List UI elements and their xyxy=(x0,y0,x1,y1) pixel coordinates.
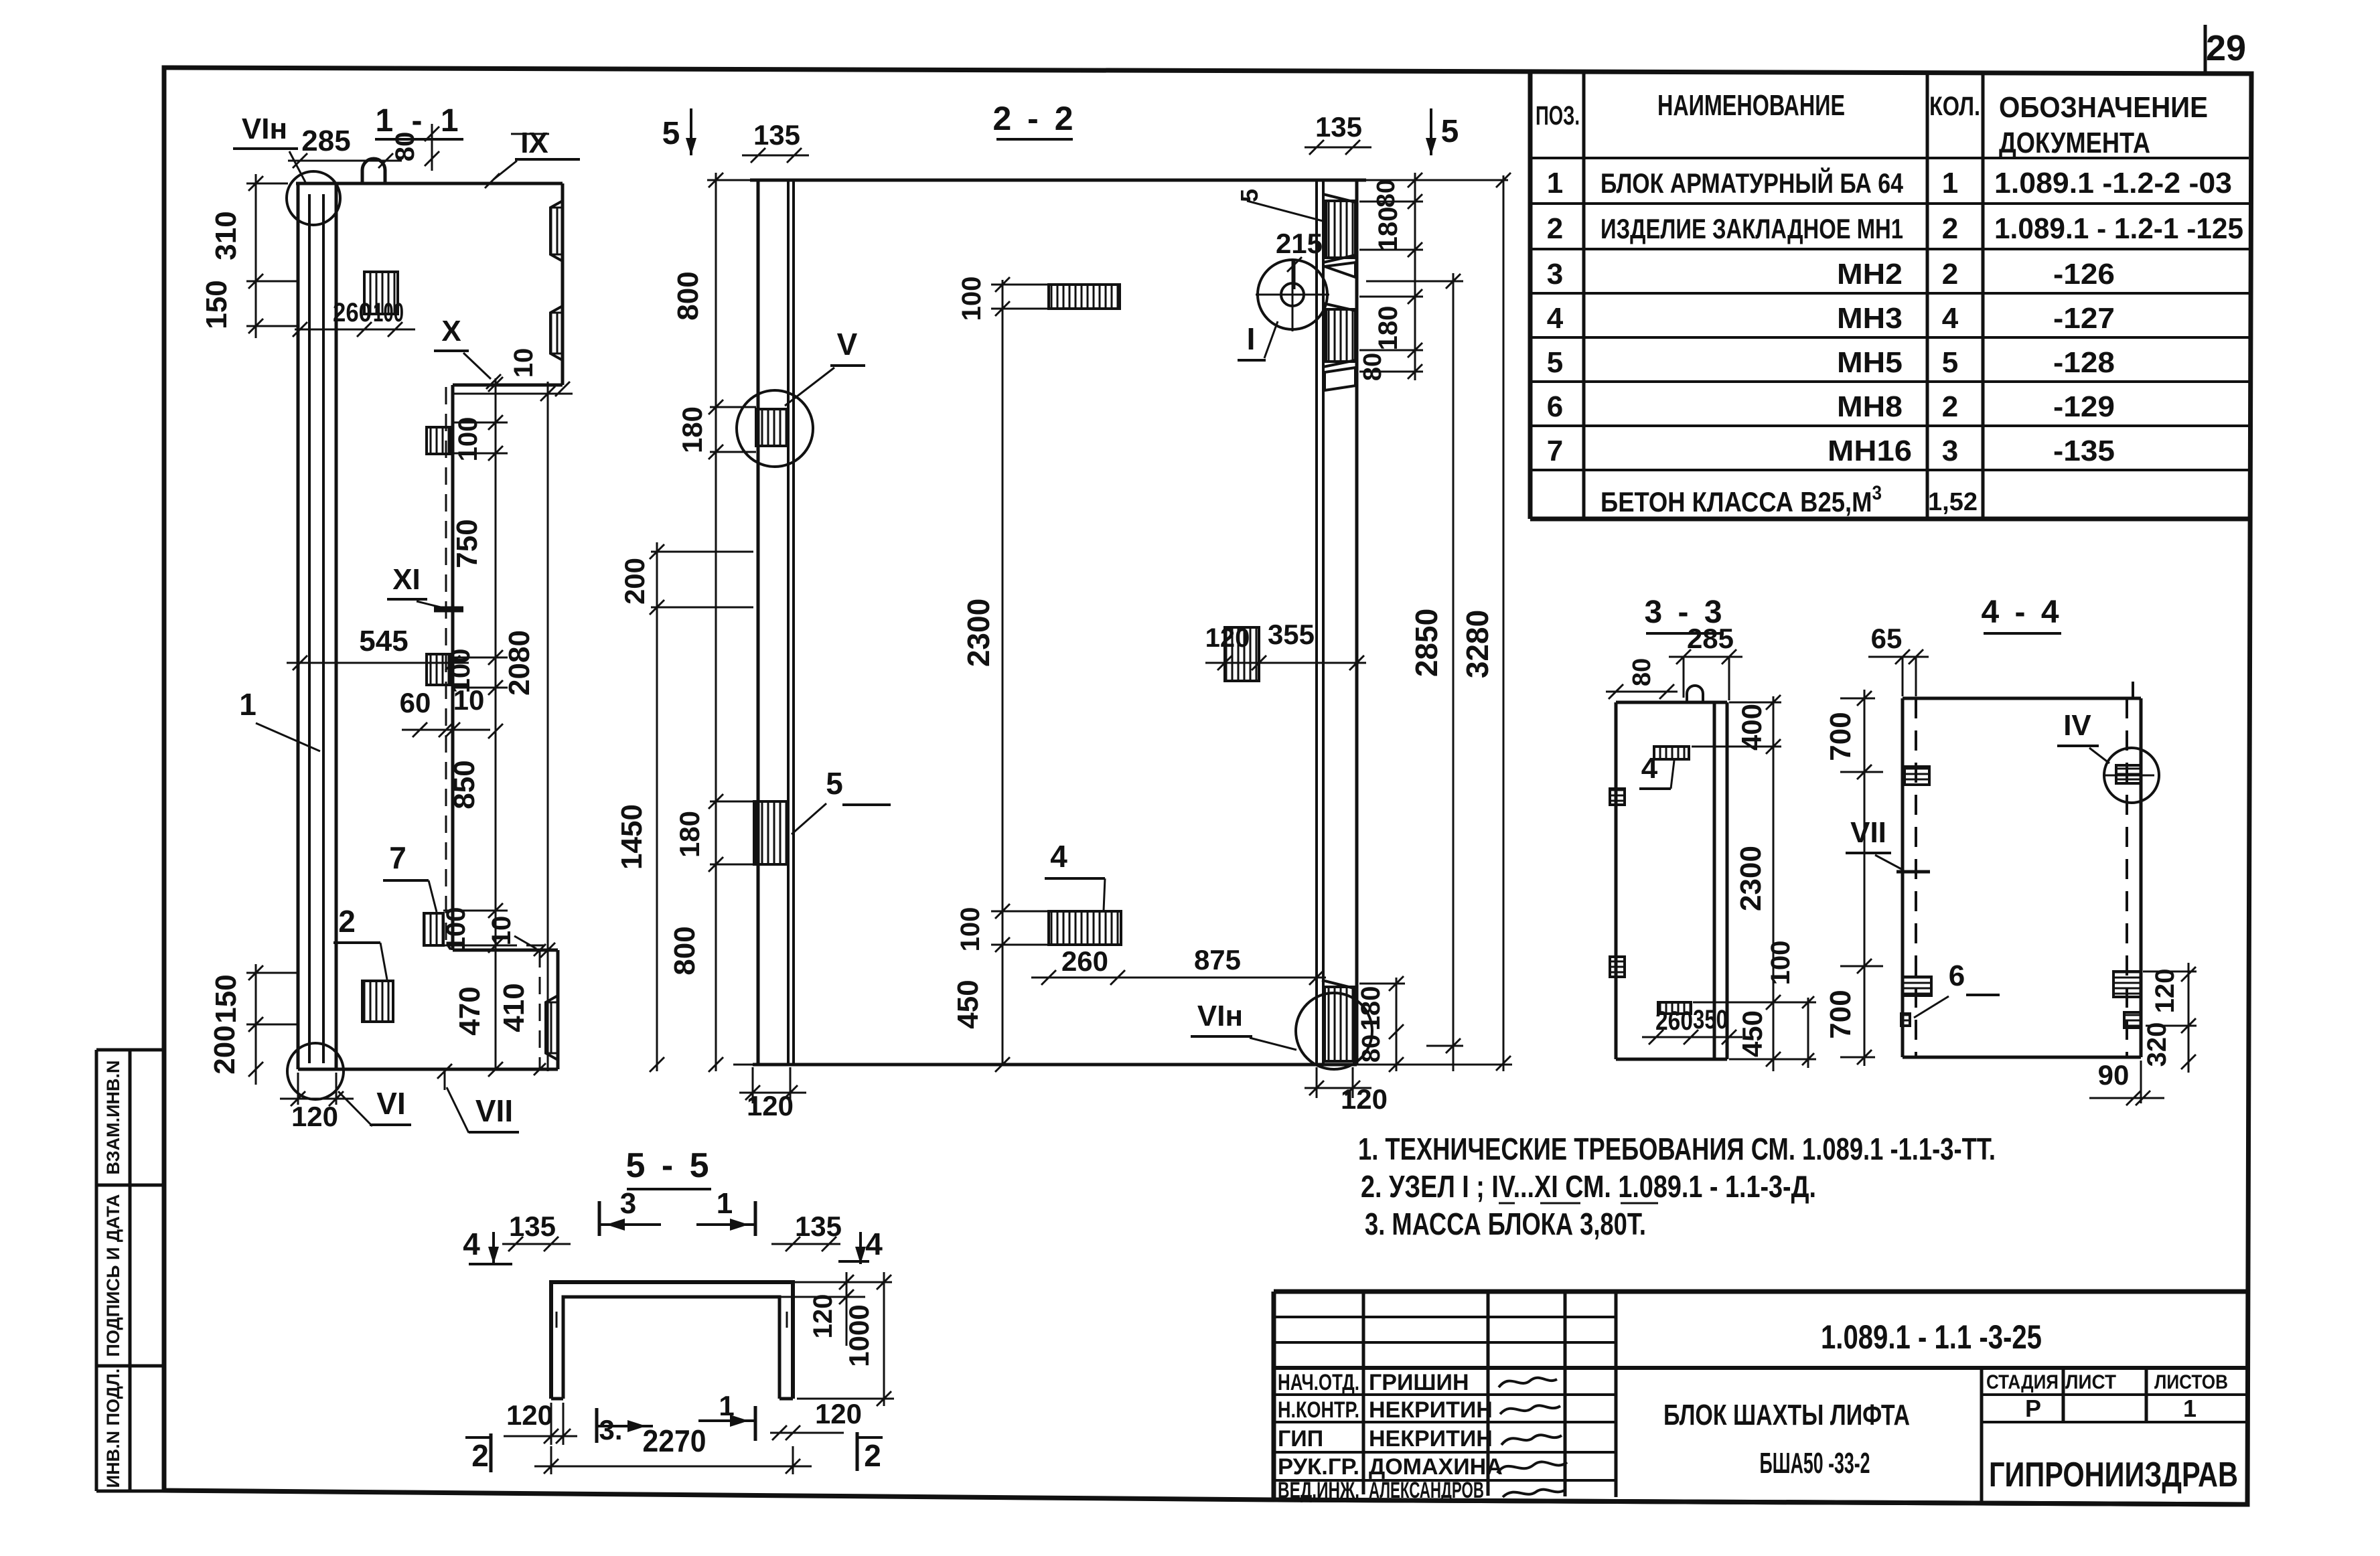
svg-text:6: 6 xyxy=(1949,959,1965,992)
svg-text:2850: 2850 xyxy=(1409,609,1444,677)
svg-text:120: 120 xyxy=(506,1399,553,1431)
view 2-2 plate V xyxy=(756,409,788,446)
view 2-2 plate 4 xyxy=(1049,911,1121,945)
view 1-1 bottom band right edge xyxy=(556,950,560,1069)
view 2-2 right wall outer xyxy=(1355,180,1359,1065)
svg-text:2: 2 xyxy=(338,904,356,939)
view 2-2 right top chain xyxy=(1414,173,1416,380)
view 1-1 inner wall vertical xyxy=(451,385,455,950)
page number 29 tick xyxy=(2204,25,2207,75)
svg-text:1,52: 1,52 xyxy=(1928,488,1978,516)
svg-text:800: 800 xyxy=(672,271,704,320)
svg-text:РУК.ГР.: РУК.ГР. xyxy=(1278,1454,1359,1480)
spec table row lines xyxy=(1530,158,2249,470)
view 1-1 plate 7 xyxy=(424,913,443,945)
svg-text:180: 180 xyxy=(1373,306,1403,351)
view 5-5 right witness lines xyxy=(779,1282,892,1297)
svg-text:5: 5 xyxy=(662,116,680,151)
view 5-5 channel inner xyxy=(563,1297,779,1399)
view 2-2 right wall inner pair xyxy=(1315,180,1318,1065)
svg-text:3280: 3280 xyxy=(1460,610,1495,678)
view 1-1 detail circle top xyxy=(287,171,340,225)
view 4-4 top stub xyxy=(2132,682,2134,698)
view 4-4 lower right tab xyxy=(2124,1012,2141,1028)
view 1-1 right edge of top band xyxy=(561,183,565,385)
view 1-1 wall rebar lines xyxy=(308,194,311,1063)
svg-text:3: 3 xyxy=(1942,435,1958,467)
view 4-4 outline xyxy=(1903,698,2141,1057)
view 1-1 wall inner edge xyxy=(335,183,338,1069)
svg-text:-128: -128 xyxy=(2053,346,2115,379)
svg-text:ПОДПИСЬ И ДАТА: ПОДПИСЬ И ДАТА xyxy=(103,1194,123,1356)
svg-text:ДОМАХИНА: ДОМАХИНА xyxy=(1369,1454,1503,1480)
view 2-2 left wall outer xyxy=(757,180,760,1065)
svg-text:135: 135 xyxy=(753,119,800,151)
detail circle IV xyxy=(2104,748,2159,803)
svg-text:4: 4 xyxy=(1050,839,1067,874)
svg-text:2080: 2080 xyxy=(503,630,536,696)
svg-text:БЕТОН КЛАССА В25,М3: БЕТОН КЛАССА В25,М3 xyxy=(1601,482,1882,518)
svg-text:180: 180 xyxy=(1373,207,1403,252)
title block verticals xyxy=(1363,1292,1616,1497)
view 1-1 key notch lower xyxy=(550,306,563,360)
spec table verticals xyxy=(1584,71,1983,519)
view 2-2 chain 3280 xyxy=(1503,175,1505,1071)
svg-text:VI: VI xyxy=(376,1086,405,1121)
svg-text:2 - 2: 2 - 2 xyxy=(992,100,1076,137)
view 1-1 key notch upper xyxy=(550,201,563,261)
view 1-1 key notch bottom band xyxy=(546,996,558,1060)
svg-text:5: 5 xyxy=(1441,114,1459,149)
svg-text:120: 120 xyxy=(815,1398,862,1429)
svg-text:ГРИШИН: ГРИШИН xyxy=(1369,1370,1469,1395)
view 5-5 channel outer xyxy=(551,1282,793,1399)
svg-text:410: 410 xyxy=(498,983,530,1032)
svg-text:180: 180 xyxy=(676,406,708,453)
svg-text:2: 2 xyxy=(471,1438,489,1473)
svg-text:5 - 5: 5 - 5 xyxy=(625,1146,712,1185)
view 3-3 left tab lower xyxy=(1610,957,1625,977)
svg-text:100: 100 xyxy=(957,277,986,321)
view 2-2 right wall plate R1 xyxy=(1326,201,1355,258)
svg-text:2: 2 xyxy=(864,1438,881,1473)
view 4-4 lower right plate xyxy=(2113,971,2141,997)
view 2-2 right wall plate R2 xyxy=(1326,309,1355,362)
svg-text:3. МАССА БЛОКА 3,80Т.: 3. МАССА БЛОКА 3,80Т. xyxy=(1365,1207,1646,1241)
signature squiggles xyxy=(1499,1378,1557,1387)
svg-text:-129: -129 xyxy=(2053,390,2115,423)
svg-text:НЕКРИТИН: НЕКРИТИН xyxy=(1369,1426,1493,1452)
svg-text:МН16: МН16 xyxy=(1828,435,1912,467)
svg-text:НАЧ.ОТД.: НАЧ.ОТД. xyxy=(1278,1370,1359,1395)
svg-text:80: 80 xyxy=(1359,353,1387,381)
svg-text:700: 700 xyxy=(1824,990,1857,1038)
svg-text:10: 10 xyxy=(509,348,538,378)
section mark 5 left xyxy=(690,108,692,155)
view 1-1 plate 2 xyxy=(362,981,393,1022)
view 2-2 plate 3 top middle xyxy=(1049,285,1120,309)
svg-text:180: 180 xyxy=(1356,986,1386,1031)
section mark 5 right xyxy=(1430,108,1432,155)
svg-text:X: X xyxy=(441,315,461,347)
view 2-2 left chain A xyxy=(715,173,717,1071)
svg-text:ПОЗ.: ПОЗ. xyxy=(1536,101,1580,131)
svg-text:100: 100 xyxy=(441,907,471,952)
svg-text:80: 80 xyxy=(1628,658,1656,686)
svg-text:120: 120 xyxy=(808,1294,838,1339)
dimension 1000 rotated xyxy=(883,1272,885,1406)
svg-text:1: 1 xyxy=(1547,167,1563,200)
view 2-2 right wall wedge R1 xyxy=(1325,262,1355,277)
svg-text:АЛЕКСАНДРОВ: АЛЕКСАНДРОВ xyxy=(1369,1478,1484,1503)
svg-text:1: 1 xyxy=(719,1390,734,1421)
svg-text:100: 100 xyxy=(453,417,483,462)
svg-text:850: 850 xyxy=(448,760,481,809)
svg-text:IV: IV xyxy=(2063,709,2091,742)
svg-text:7: 7 xyxy=(389,840,406,875)
svg-text:4: 4 xyxy=(865,1227,883,1261)
svg-text:ЛИСТОВ: ЛИСТОВ xyxy=(2154,1371,2228,1393)
svg-text:5: 5 xyxy=(826,766,843,801)
svg-text:МН8: МН8 xyxy=(1837,390,1903,423)
svg-text:2270: 2270 xyxy=(643,1423,706,1458)
svg-text:3: 3 xyxy=(620,1187,636,1220)
svg-text:355: 355 xyxy=(1268,619,1315,650)
svg-text:200: 200 xyxy=(208,1025,241,1074)
spec table outline xyxy=(1530,71,2249,519)
title block outline xyxy=(1274,1292,2249,1504)
view 2-2 right wall wedge R2 xyxy=(1325,368,1355,390)
svg-text:2: 2 xyxy=(1942,390,1958,423)
svg-text:135: 135 xyxy=(509,1211,556,1242)
svg-text:875: 875 xyxy=(1194,944,1241,976)
section mark 3 bottom xyxy=(595,1408,599,1443)
svg-text:2: 2 xyxy=(1942,212,1958,245)
view 4-4 plate IV xyxy=(2116,765,2141,783)
svg-text:VII: VII xyxy=(475,1093,513,1128)
title block divider xyxy=(1274,1366,2249,1370)
svg-text:1: 1 xyxy=(2183,1395,2197,1422)
view 1-1 left dim chain xyxy=(255,174,257,338)
svg-text:1: 1 xyxy=(1942,167,1958,200)
dimension 120 rotated view 5-5 xyxy=(846,1272,848,1346)
view 2-2 left wall inner pair xyxy=(787,180,790,1065)
svg-text:ИНВ.N ПОДЛ.: ИНВ.N ПОДЛ. xyxy=(103,1369,123,1488)
svg-text:БЛОК ШАХТЫ ЛИФТА: БЛОК ШАХТЫ ЛИФТА xyxy=(1663,1399,1910,1431)
view 1-1 plate at inner wall mid xyxy=(427,654,451,685)
view 2-2 center dim chain xyxy=(1002,280,1004,1065)
view 3-3 outline xyxy=(1616,702,1727,1059)
svg-text:2: 2 xyxy=(1942,258,1958,291)
svg-text:80: 80 xyxy=(1357,1034,1386,1063)
svg-text:ЛИСТ: ЛИСТ xyxy=(2065,1371,2116,1393)
svg-text:120: 120 xyxy=(2150,969,2180,1014)
left stamp strip divider 1 xyxy=(96,1184,163,1187)
svg-text:ДОКУМЕНТА: ДОКУМЕНТА xyxy=(1999,127,2150,159)
svg-text:2. УЗЕЛ I ; IV...XI СМ. 1.: 2. УЗЕЛ I ; IV...XI СМ. 1.089.1 - 1.1-3-… xyxy=(1361,1169,1816,1204)
view 5-5 leg caps xyxy=(551,1397,793,1401)
svg-text:I: I xyxy=(1247,321,1256,356)
svg-text:400: 400 xyxy=(1736,704,1767,751)
svg-text:750: 750 xyxy=(451,519,484,568)
svg-text:90: 90 xyxy=(2098,1059,2130,1091)
view 4-4 hidden left edge xyxy=(1915,698,1917,1057)
svg-text:ИЗДЕЛИЕ ЗАКЛАДНОЕ МН1: ИЗДЕЛИЕ ЗАКЛАДНОЕ МН1 xyxy=(1601,213,1903,244)
svg-text:10: 10 xyxy=(487,916,516,946)
view 3-3 plate 4 top xyxy=(1654,747,1689,759)
svg-text:КОЛ.: КОЛ. xyxy=(1929,92,1980,121)
svg-text:VIн: VIн xyxy=(1197,1000,1243,1032)
view 1-1 inner edge of top band xyxy=(453,384,563,387)
svg-text:285: 285 xyxy=(301,125,350,157)
svg-text:1. ТЕХНИЧЕСКИЕ ТРЕБОВАНИЯ: 1. ТЕХНИЧЕСКИЕ ТРЕБОВАНИЯ СМ. 1.089.1 -1… xyxy=(1358,1132,1996,1166)
svg-text:ОБОЗНАЧЕНИЕ: ОБОЗНАЧЕНИЕ xyxy=(1999,91,2208,124)
section mark 1 top xyxy=(754,1201,757,1236)
view 1-1 bottom left chain xyxy=(255,964,257,1085)
svg-text:100: 100 xyxy=(956,907,985,952)
view 2-2 chain 2850 xyxy=(1453,273,1455,1071)
svg-text:Р: Р xyxy=(2025,1395,2041,1422)
view 2-2 mid right plate xyxy=(1225,627,1259,681)
title block stadia rows xyxy=(1982,1395,2249,1422)
svg-text:4: 4 xyxy=(463,1227,480,1261)
view 2-2 bottom right chain xyxy=(1396,978,1398,1071)
svg-text:V: V xyxy=(837,327,858,362)
view 4-4 plate top xyxy=(1905,767,1929,785)
svg-text:4: 4 xyxy=(1942,302,1959,335)
svg-text:ГИПРОНИИЗДРАВ: ГИПРОНИИЗДРАВ xyxy=(1989,1456,2238,1494)
svg-text:7: 7 xyxy=(1547,435,1563,467)
svg-text:3.: 3. xyxy=(599,1414,622,1446)
detail circle I xyxy=(1258,260,1327,329)
view 2-2 plate 5 xyxy=(754,801,788,864)
view 1-1 lifting loop xyxy=(362,159,385,183)
left stamp strip outline xyxy=(96,1050,163,1491)
view 1-1 node XI thick mark xyxy=(434,607,463,613)
view 2-2 left chain B xyxy=(656,542,658,1071)
section mark 3 top xyxy=(598,1201,601,1236)
view 4-4 right chain xyxy=(2188,963,2190,1073)
svg-text:260: 260 xyxy=(1061,945,1108,977)
svg-text:800: 800 xyxy=(668,926,701,975)
svg-text:80: 80 xyxy=(390,132,420,162)
svg-text:5: 5 xyxy=(1942,346,1958,379)
view 3-3 right chain xyxy=(1773,696,1775,1071)
view 1-1 2080 chain xyxy=(547,382,549,1071)
svg-text:100: 100 xyxy=(1766,941,1795,986)
svg-text:60: 60 xyxy=(400,687,431,718)
left stamp strip divider 2 xyxy=(96,1365,163,1368)
view 1-1 inner dim chain xyxy=(495,378,497,968)
svg-text:1.089.1 - 1.2-1 -125: 1.089.1 - 1.2-1 -125 xyxy=(1994,212,2243,245)
svg-text:285: 285 xyxy=(1687,623,1734,654)
svg-text:5: 5 xyxy=(1547,346,1563,379)
svg-text:310: 310 xyxy=(210,211,242,260)
svg-text:150: 150 xyxy=(210,974,242,1023)
svg-text:700: 700 xyxy=(1824,712,1857,761)
view 1-1 bottom edge xyxy=(298,1068,558,1071)
view 1-1 bottom band hidden edge xyxy=(539,950,541,1069)
svg-text:1: 1 xyxy=(239,687,256,722)
view 1-1 hidden dashed line xyxy=(445,387,447,945)
svg-text:6: 6 xyxy=(1547,390,1563,423)
svg-text:МН3: МН3 xyxy=(1837,302,1903,335)
svg-text:Н.КОНТР.: Н.КОНТР. xyxy=(1278,1397,1359,1423)
view 3-3 plate bottom xyxy=(1658,1002,1691,1014)
svg-text:НАИМЕНОВАНИЕ: НАИМЕНОВАНИЕ xyxy=(1657,89,1845,122)
svg-text:НЕКРИТИН: НЕКРИТИН xyxy=(1369,1397,1493,1423)
view 1-1 plate MN top xyxy=(364,272,398,314)
view 3-3 lifting loop xyxy=(1687,686,1703,702)
svg-text:80: 80 xyxy=(1372,179,1400,208)
svg-text:5: 5 xyxy=(1236,189,1263,202)
svg-text:МН5: МН5 xyxy=(1837,346,1903,379)
svg-text:XI: XI xyxy=(392,563,421,596)
view 1-1 detail circle bottom xyxy=(287,1043,344,1099)
svg-text:180: 180 xyxy=(674,811,705,858)
svg-text:10: 10 xyxy=(453,684,485,716)
svg-text:IX: IX xyxy=(520,127,548,159)
svg-text:1450: 1450 xyxy=(615,804,648,870)
svg-text:ГИП: ГИП xyxy=(1278,1426,1323,1452)
view 4-4 hidden right edge xyxy=(2126,698,2128,1057)
svg-text:ВЗАМ.ИНВ.N: ВЗАМ.ИНВ.N xyxy=(103,1061,123,1175)
svg-text:БЛОК АРМАТУРНЫЙ БА 64: БЛОК АРМАТУРНЫЙ БА 64 xyxy=(1601,167,1904,199)
svg-text:100: 100 xyxy=(373,298,404,327)
svg-text:1.089.1 -1.2-2 -03: 1.089.1 -1.2-2 -03 xyxy=(1994,167,2232,200)
svg-text:135: 135 xyxy=(1315,111,1362,143)
svg-text:1.089.1 - 1.1 -3-25: 1.089.1 - 1.1 -3-25 xyxy=(1821,1318,2042,1356)
svg-text:545: 545 xyxy=(359,625,408,657)
svg-text:450: 450 xyxy=(952,980,984,1028)
view 4-4 small tab bottom xyxy=(1901,1014,1910,1026)
svg-text:-127: -127 xyxy=(2053,302,2115,335)
view 4-4 plate bottom xyxy=(1903,977,1931,996)
svg-text:2: 2 xyxy=(1547,212,1563,245)
view 2-2 top edge xyxy=(750,179,1366,182)
svg-text:-135: -135 xyxy=(2053,435,2115,467)
svg-text:4: 4 xyxy=(1641,752,1658,785)
svg-text:2300: 2300 xyxy=(961,599,996,667)
title block right verticals xyxy=(1982,1368,2146,1503)
svg-text:320: 320 xyxy=(2142,1022,2172,1067)
view 2-2 bottom edge xyxy=(753,1063,1357,1067)
title block top rows xyxy=(1274,1317,1616,1342)
section mark 1 bottom xyxy=(754,1406,757,1441)
view 5-5 leg marks xyxy=(556,1312,787,1328)
svg-text:29: 29 xyxy=(2206,28,2246,68)
view 1-1 wall outer left edge xyxy=(297,183,300,1069)
svg-text:VIн: VIн xyxy=(242,112,287,145)
svg-text:МН2: МН2 xyxy=(1837,258,1903,291)
svg-text:1000: 1000 xyxy=(843,1304,875,1367)
svg-text:1: 1 xyxy=(717,1187,733,1220)
view 2-2 right wall plate R3 bottom xyxy=(1325,987,1354,1061)
detail circle V xyxy=(737,390,813,467)
svg-text:120: 120 xyxy=(291,1101,338,1132)
svg-text:470: 470 xyxy=(453,986,486,1035)
svg-text:450: 450 xyxy=(1736,1010,1768,1057)
svg-text:ВЕД.ИНЖ.: ВЕД.ИНЖ. xyxy=(1278,1478,1359,1503)
view 4-4 left chain xyxy=(1864,690,1866,1066)
svg-text:2300: 2300 xyxy=(1734,846,1767,911)
svg-text:65: 65 xyxy=(1871,623,1903,654)
svg-text:3: 3 xyxy=(1547,258,1563,291)
view 1-1 step lines xyxy=(453,949,558,952)
svg-text:БША50 -33-2: БША50 -33-2 xyxy=(1760,1447,1870,1480)
detail circle VIn bottom xyxy=(1296,993,1372,1069)
view 1-1 plate at inner wall upper xyxy=(427,427,451,454)
view 3-3 left tab upper xyxy=(1610,789,1625,805)
svg-text:VII: VII xyxy=(1850,816,1886,849)
svg-text:120: 120 xyxy=(1205,623,1250,653)
svg-text:4: 4 xyxy=(1547,302,1564,335)
svg-text:150: 150 xyxy=(200,280,233,329)
svg-text:-126: -126 xyxy=(2053,258,2115,291)
svg-text:СТАДИЯ: СТАДИЯ xyxy=(1986,1371,2059,1393)
dimension 120 bottom xyxy=(298,1073,336,1105)
svg-text:260: 260 xyxy=(333,298,372,327)
title block row lines xyxy=(1274,1395,1616,1480)
svg-text:215: 215 xyxy=(1276,228,1323,259)
svg-text:4 - 4: 4 - 4 xyxy=(1981,595,2062,630)
svg-text:200: 200 xyxy=(619,558,650,605)
view 1-1 top edge xyxy=(296,182,563,185)
